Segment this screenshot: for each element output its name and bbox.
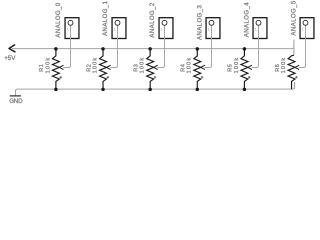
svg-text:100k: 100k <box>234 57 240 74</box>
svg-text:ANALOG_2: ANALOG_2 <box>150 2 156 37</box>
svg-text:ANALOG_1: ANALOG_1 <box>103 0 109 35</box>
svg-text:+5V: +5V <box>4 55 16 62</box>
svg-text:ANALOG_4: ANALOG_4 <box>244 2 250 37</box>
svg-text:100k: 100k <box>281 57 287 74</box>
svg-text:100k: 100k <box>45 57 51 74</box>
svg-text:100k: 100k <box>140 57 146 74</box>
svg-text:R4: R4 <box>181 64 187 72</box>
svg-text:100k: 100k <box>187 57 193 74</box>
svg-text:100k: 100k <box>92 57 98 74</box>
svg-text:ANALOG_3: ANALOG_3 <box>197 5 203 40</box>
svg-text:R5: R5 <box>228 64 234 72</box>
svg-text:GND: GND <box>9 98 23 105</box>
svg-text:ANALOG_5: ANALOG_5 <box>292 0 298 35</box>
svg-text:R3: R3 <box>133 64 139 72</box>
svg-text:R6: R6 <box>275 64 281 72</box>
svg-text:R1: R1 <box>39 64 45 72</box>
svg-text:ANALOG_0: ANALOG_0 <box>56 2 62 37</box>
svg-text:R2: R2 <box>86 64 92 72</box>
